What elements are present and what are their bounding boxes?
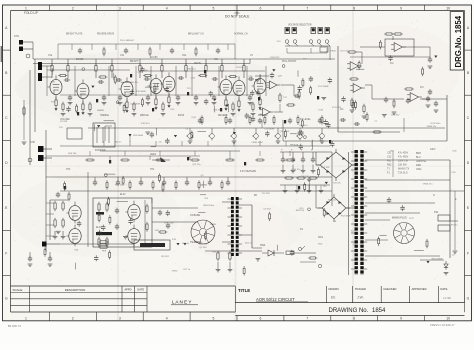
svg-text:3: 3 [119,317,121,321]
svg-text:R62: R62 [387,164,392,167]
svg-text:APPD: APPD [124,288,131,292]
svg-text:IC50 47u: IC50 47u [292,169,302,171]
svg-text:PULL BOOST: PULL BOOST [282,61,297,63]
svg-text:VOLUME: VOLUME [60,119,70,121]
svg-text:Q52 1n: Q52 1n [245,242,253,244]
svg-text:FS: FS [300,229,303,231]
svg-text:IC8 47u: IC8 47u [333,183,341,185]
svg-text:C66 2K2: C66 2K2 [391,115,400,117]
svg-text:2: 2 [72,317,74,321]
svg-text:MASTER: MASTER [258,114,268,117]
svg-text:IC57 47u: IC57 47u [340,50,350,52]
svg-text:HT1: HT1 [150,169,155,171]
svg-text:4: 4 [166,317,168,321]
svg-text:R61: R61 [387,160,392,163]
svg-text:DATE: DATE [137,288,144,292]
svg-text:+: + [301,148,303,152]
svg-text:1: 1 [25,6,27,10]
svg-text:DATE: DATE [440,287,447,291]
svg-text:C15 680R: C15 680R [264,128,274,130]
svg-text:J.W.: J.W. [357,296,364,300]
svg-text:c.1.90: c.1.90 [443,296,451,300]
svg-text:VR9 100n: VR9 100n [164,222,175,224]
svg-text:R66 100n: R66 100n [115,184,125,186]
svg-text:NORMAL CH: NORMAL CH [234,33,248,36]
svg-text:T2A SLO: T2A SLO [398,172,408,175]
svg-text:10: 10 [446,6,450,10]
svg-text:9: 9 [400,6,402,10]
svg-text:Q3 2K2: Q3 2K2 [199,247,207,249]
svg-text:Q31 470K: Q31 470K [280,131,290,133]
svg-text:47u 450V: 47u 450V [398,156,409,159]
svg-text:IC23 100n: IC23 100n [430,123,441,125]
svg-text:DRG.No. 1854: DRG.No. 1854 [454,15,463,67]
svg-text:D66 1n: D66 1n [114,141,122,143]
svg-text:BASS: BASS [178,114,185,117]
svg-text:IC60 2K2: IC60 2K2 [270,57,280,59]
svg-text:4: 4 [166,6,168,10]
svg-text:REVERB DRIVE: REVERB DRIVE [97,34,115,36]
svg-text:VR68 22n: VR68 22n [427,126,438,128]
svg-text:L A N E Y: L A N E Y [172,300,191,305]
svg-text:VR18 680R: VR18 680R [431,259,443,261]
svg-text:T48 1M: T48 1M [213,110,221,112]
svg-text:T36 680R: T36 680R [136,91,146,93]
svg-text:F63 47u: F63 47u [188,69,197,71]
svg-text:F: F [467,251,469,255]
svg-text:GRN/YEL: GRN/YEL [416,160,427,163]
svg-text:VR6 47u: VR6 47u [130,82,139,84]
svg-text:REVERB: REVERB [218,115,228,117]
svg-text:DRIVE: DRIVE [194,63,201,65]
svg-text:B1 DW 74: B1 DW 74 [8,324,21,328]
svg-text:C26 10K: C26 10K [301,176,310,178]
svg-text:D59 1M: D59 1M [68,153,76,155]
svg-text:IC9 1M: IC9 1M [60,121,67,123]
svg-text:PULL BRIGHT: PULL BRIGHT [120,40,135,42]
svg-text:BRILLIANT CH: BRILLIANT CH [188,33,204,36]
svg-text:MAINS TX: MAINS TX [398,168,410,171]
svg-text:EL34: EL34 [96,227,102,229]
svg-text:DRAWING No.: DRAWING No. [329,308,369,314]
svg-text:D24 47u: D24 47u [199,243,208,245]
svg-text:8R: 8R [254,195,257,197]
svg-text:Ell.: Ell. [331,296,336,300]
svg-text:ECC83: ECC83 [150,57,158,59]
svg-text:VR46 47u: VR46 47u [423,184,434,186]
svg-text:IC41 680R: IC41 680R [318,86,329,88]
svg-text:CHECKED: CHECKED [383,287,396,291]
svg-text:220K 1W: 220K 1W [398,160,409,163]
svg-text:V1b: V1b [120,55,125,57]
svg-text:IC10: IC10 [191,117,196,119]
svg-text:VR14: VR14 [172,270,178,272]
svg-text:DESCRIPTION: DESCRIPTION [65,288,86,292]
svg-text:TITLE: TITLE [238,288,250,293]
svg-text:Q11 22n: Q11 22n [192,164,201,166]
svg-text:F56 1n: F56 1n [182,243,190,245]
svg-text:IC63 47u: IC63 47u [141,123,151,125]
svg-text:9: 9 [400,317,402,321]
svg-text:ORG: ORG [416,168,422,171]
svg-text:CH2: CH2 [30,141,35,144]
svg-text:V2a: V2a [182,55,187,57]
svg-text:6: 6 [259,317,261,321]
svg-text:V1a: V1a [48,55,53,57]
svg-text:R25 680R: R25 680R [133,135,143,137]
svg-text:BRIGHT: BRIGHT [130,61,139,63]
svg-text:MIDDLE: MIDDLE [140,115,149,117]
svg-text:5: 5 [213,6,215,10]
svg-text:HT RAIL: HT RAIL [290,144,299,147]
svg-text:Q57 47u: Q57 47u [299,125,308,127]
svg-text:T19 1M: T19 1M [236,67,244,69]
svg-text:PRESS C.18.EXE.47: PRESS C.18.EXE.47 [430,323,455,327]
svg-text:+: + [291,148,293,152]
svg-text:IC62: IC62 [319,109,324,111]
svg-text:D3 2K2: D3 2K2 [264,209,272,211]
svg-text:6.3V HEATERS: 6.3V HEATERS [240,170,257,173]
svg-text:AOR 50/12 CIRCUIT: AOR 50/12 CIRCUIT [256,297,295,302]
svg-text:FOLD UP: FOLD UP [24,11,38,15]
svg-text:FX LEVEL: FX LEVEL [300,119,311,121]
svg-text:1: 1 [25,317,27,321]
svg-text:VR26: VR26 [330,50,336,52]
svg-text:DO NOT SCALE: DO NOT SCALE [225,15,250,19]
svg-text:VR43 100n: VR43 100n [203,205,215,207]
svg-text:F: F [5,251,7,255]
svg-text:TREBLE: TREBLE [100,115,109,117]
svg-text:HT2: HT2 [66,169,71,171]
svg-text:SW2: SW2 [260,244,266,247]
svg-text:BLU: BLU [416,156,421,159]
svg-text:CH1: CH1 [14,35,19,38]
svg-text:TRACED: TRACED [355,287,366,291]
svg-text:3: 3 [119,6,121,10]
svg-text:T12 2K2: T12 2K2 [262,193,271,195]
svg-text:V2b: V2b [214,59,219,61]
svg-text:C57 1n: C57 1n [183,269,191,271]
svg-text:8: 8 [353,317,355,321]
svg-text:FS1: FS1 [434,211,439,214]
svg-text:5: 5 [213,317,215,321]
svg-text:8: 8 [353,6,355,10]
svg-text:6: 6 [259,6,261,10]
svg-text:F51 1n: F51 1n [451,225,459,227]
svg-text:DRAWN: DRAWN [329,287,339,291]
svg-text:ECC83: ECC83 [76,59,84,61]
svg-text:7: 7 [306,6,308,10]
svg-text:VOLTAGE SELECTOR: VOLTAGE SELECTOR [288,24,312,27]
svg-text:D49 2K2: D49 2K2 [212,251,221,253]
svg-text:F52 680R: F52 680R [341,216,351,218]
svg-text:F10 22n: F10 22n [328,199,337,201]
svg-text:BRIGHT PLATE: BRIGHT PLATE [66,33,83,36]
svg-text:F12 10K: F12 10K [321,167,330,169]
svg-text:SCALE: SCALE [13,288,23,292]
svg-text:D21 680R: D21 680R [130,103,140,105]
svg-text:7: 7 [306,317,308,321]
svg-text:R5 2K2: R5 2K2 [162,256,170,258]
svg-text:APPROVED: APPROVED [412,287,427,291]
svg-text:IC37: IC37 [409,218,414,220]
svg-text:10K 5W: 10K 5W [398,164,407,167]
svg-text:LED1: LED1 [150,153,157,156]
svg-text:BRN: BRN [416,152,421,155]
svg-text:1854: 1854 [372,308,386,314]
svg-text:G: G [467,296,470,300]
svg-text:FOOTSW: FOOTSW [95,149,106,152]
svg-text:MAINS PLUG: MAINS PLUG [392,217,407,220]
svg-text:G: G [5,296,8,300]
svg-text:VR30 470K: VR30 470K [252,142,264,144]
svg-text:OP TX: OP TX [200,185,207,187]
svg-text:+: + [281,148,283,152]
svg-text:SW1: SW1 [318,237,324,239]
svg-text:R28 10K: R28 10K [296,210,305,212]
svg-text:RED: RED [416,164,421,167]
svg-text:+: + [311,148,313,152]
svg-text:EL34: EL34 [120,194,126,196]
svg-text:47u 450V: 47u 450V [398,152,409,155]
svg-text:10: 10 [446,317,450,321]
svg-text:C32: C32 [387,156,392,159]
svg-text:2: 2 [72,6,74,10]
svg-text:V4 BASE: V4 BASE [190,214,200,217]
svg-text:240V: 240V [430,149,436,151]
